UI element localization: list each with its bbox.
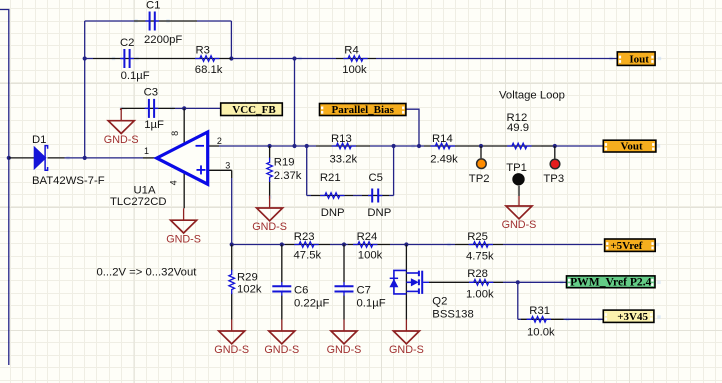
svg-text:+5Vref: +5Vref [610,240,642,252]
svg-text:GND-S: GND-S [389,344,424,356]
svg-text:1.00k: 1.00k [466,289,494,301]
svg-text:C5: C5 [369,172,383,184]
svg-text:0...2V => 0...32Vout: 0...2V => 0...32Vout [97,267,198,279]
svg-text:2.37k: 2.37k [274,170,302,182]
svg-text:R19: R19 [274,157,295,169]
svg-text:GND-S: GND-S [327,344,362,356]
svg-text:GND-S: GND-S [264,344,299,356]
svg-text:R28: R28 [467,268,488,280]
svg-text:R13: R13 [331,133,352,145]
svg-text:R3: R3 [196,45,210,57]
svg-text:49.9: 49.9 [507,122,529,134]
svg-text:10.0k: 10.0k [527,327,555,339]
svg-text:2: 2 [217,136,222,146]
svg-text:Iout: Iout [629,53,649,65]
svg-text:R25: R25 [467,231,488,243]
svg-text:0.1µF: 0.1µF [357,298,386,310]
svg-text:4.75k: 4.75k [466,251,494,263]
svg-text:GND-S: GND-S [214,344,249,356]
svg-text:Q2: Q2 [432,296,447,308]
svg-text:47.5k: 47.5k [294,250,322,262]
svg-text:BAT42WS-7-F: BAT42WS-7-F [32,175,105,187]
svg-text:Voltage Loop: Voltage Loop [499,90,565,102]
svg-text:100k: 100k [342,64,367,76]
svg-text:C3: C3 [144,87,158,99]
svg-text:2.49k: 2.49k [430,154,458,166]
svg-text:C2: C2 [120,37,134,49]
svg-text:PWM_Vref P2.4: PWM_Vref P2.4 [570,275,652,288]
svg-text:TP2: TP2 [469,173,490,185]
svg-text:TP3: TP3 [543,173,564,185]
svg-text:R23: R23 [294,231,315,243]
svg-text:R21: R21 [320,172,341,184]
svg-text:BSS138: BSS138 [432,309,473,321]
svg-text:68.1k: 68.1k [195,64,223,76]
svg-text:+3V45: +3V45 [617,311,648,323]
svg-text:Parallel_Bias: Parallel_Bias [332,104,395,116]
svg-text:R24: R24 [357,231,378,243]
svg-text:D1: D1 [32,134,46,146]
svg-text:VCC_FB: VCC_FB [232,104,276,116]
svg-text:0.22µF: 0.22µF [294,298,329,310]
svg-text:3: 3 [225,160,230,170]
svg-text:R29: R29 [237,272,258,284]
svg-text:Vout: Vout [620,141,643,153]
svg-text:GND-S: GND-S [104,134,139,146]
svg-text:DNP: DNP [367,207,391,219]
svg-text:4: 4 [169,180,179,185]
svg-text:R4: R4 [344,45,358,57]
svg-text:R31: R31 [529,305,550,317]
svg-text:0.1µF: 0.1µF [121,70,150,82]
svg-text:GND-S: GND-S [252,221,287,233]
svg-text:100k: 100k [358,250,383,262]
svg-text:C7: C7 [357,285,371,297]
svg-text:U1A: U1A [134,185,156,197]
svg-text:1: 1 [144,146,149,156]
svg-text:R14: R14 [432,133,453,145]
svg-text:8: 8 [170,131,180,136]
svg-text:DNP: DNP [321,207,345,219]
svg-text:GND-S: GND-S [166,233,201,245]
svg-text:C1: C1 [146,0,160,12]
svg-text:TP1: TP1 [506,162,527,174]
svg-text:33.2k: 33.2k [330,154,358,166]
svg-text:GND-S: GND-S [502,219,537,231]
svg-text:2200pF: 2200pF [144,34,182,46]
svg-text:102k: 102k [237,283,262,295]
svg-text:C6: C6 [294,285,308,297]
svg-text:TLC272CD: TLC272CD [110,196,167,208]
svg-text:1µF: 1µF [144,119,164,131]
